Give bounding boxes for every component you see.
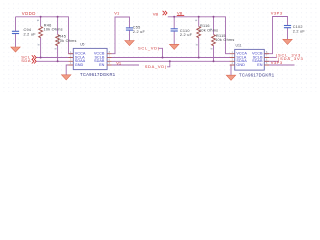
svg-text:10k Ohms: 10k Ohms — [57, 39, 76, 43]
svg-text:SCL_VD): SCL_VD) — [138, 45, 160, 50]
svg-text:TCA9617DGKR1: TCA9617DGKR1 — [239, 72, 275, 77]
svg-text:EN: EN — [99, 63, 105, 67]
svg-text:GND: GND — [236, 63, 245, 67]
svg-text:R116: R116 — [200, 24, 210, 28]
svg-text:R45: R45 — [58, 34, 66, 38]
svg-text:VB: VB — [177, 10, 183, 15]
svg-text:10k Ohms: 10k Ohms — [199, 28, 218, 32]
svg-text:TCA9617DGKR1: TCA9617DGKR1 — [80, 72, 116, 77]
svg-text:2.2 uF: 2.2 uF — [293, 29, 306, 33]
svg-text:V3P3: V3P3 — [271, 60, 283, 65]
svg-text:U5: U5 — [80, 43, 84, 47]
svg-text:VDDD: VDDD — [22, 11, 36, 16]
svg-text:10k Ohms: 10k Ohms — [44, 27, 63, 31]
svg-text:V1: V1 — [116, 60, 122, 65]
svg-text:SDA: SDA — [21, 58, 31, 63]
svg-text:GND: GND — [75, 63, 84, 67]
svg-text:10k Ohms: 10k Ohms — [215, 38, 234, 42]
svg-text:2.2 uF: 2.2 uF — [24, 33, 37, 37]
svg-text:2.2 uF: 2.2 uF — [133, 30, 146, 34]
svg-text:V1: V1 — [114, 10, 120, 15]
svg-text:U11: U11 — [236, 44, 242, 48]
svg-text:VB: VB — [153, 11, 159, 16]
svg-text:SDA_VD): SDA_VD) — [145, 64, 167, 69]
svg-text:2.2 uF: 2.2 uF — [180, 33, 193, 37]
svg-text:EN: EN — [257, 63, 263, 67]
svg-text:V3P3: V3P3 — [271, 11, 283, 16]
